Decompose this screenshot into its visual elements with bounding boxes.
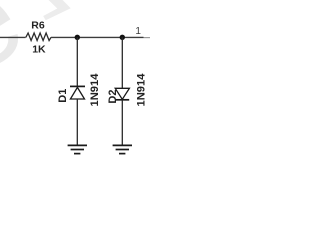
svg-text:1K: 1K [32, 43, 46, 55]
svg-text:1N914: 1N914 [135, 73, 147, 107]
svg-text:1: 1 [135, 26, 141, 37]
svg-text:R6: R6 [31, 19, 45, 31]
svg-text:D1: D1 [57, 89, 69, 103]
svg-text:1N914: 1N914 [89, 73, 101, 107]
svg-text:D2: D2 [107, 90, 119, 104]
